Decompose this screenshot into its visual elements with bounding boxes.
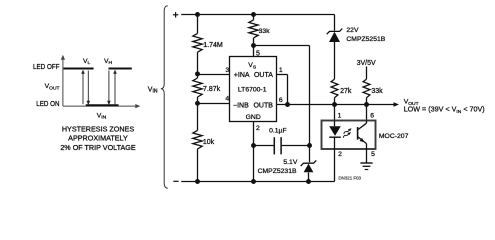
svg-text:0.1µF: 0.1µF [269, 128, 287, 135]
svg-text:5: 5 [371, 151, 375, 158]
svg-text:4: 4 [225, 96, 229, 103]
svg-text:3: 3 [225, 67, 229, 74]
svg-text:CMPZ5251B: CMPZ5251B [346, 36, 385, 43]
svg-text:MOC-207: MOC-207 [379, 133, 409, 140]
svg-text:2% OF TRIP VOLTAGE: 2% OF TRIP VOLTAGE [60, 143, 136, 152]
svg-text:LED ON: LED ON [36, 101, 59, 108]
svg-text:1: 1 [338, 113, 342, 120]
svg-text:22V: 22V [346, 27, 359, 34]
svg-text:OUTA: OUTA [254, 72, 273, 79]
svg-text:5.1V: 5.1V [283, 159, 297, 166]
svg-text:2: 2 [256, 125, 260, 132]
svg-text:VIN: VIN [148, 86, 158, 94]
svg-text:VIN: VIN [97, 112, 107, 120]
svg-text:6: 6 [279, 97, 283, 104]
svg-text:27k: 27k [340, 88, 352, 95]
svg-text:LOW = (39V < VIN < 70V): LOW = (39V < VIN < 70V) [404, 105, 485, 115]
svg-text:CMPZ5231B: CMPZ5231B [258, 168, 297, 175]
svg-text:7.87k: 7.87k [203, 86, 221, 93]
svg-text:DN321 F03: DN321 F03 [339, 175, 362, 180]
svg-text:APPROXIMATELY: APPROXIMATELY [68, 133, 128, 142]
svg-text:−INB: −INB [233, 103, 249, 110]
svg-text:HYSTERESIS ZONES: HYSTERESIS ZONES [62, 125, 134, 134]
svg-text:5: 5 [256, 50, 260, 57]
svg-text:LT6700-1: LT6700-1 [238, 86, 267, 93]
svg-text:VH: VH [104, 58, 113, 66]
svg-text:OUTB: OUTB [253, 103, 273, 110]
svg-text:VOUT: VOUT [45, 83, 60, 91]
svg-text:LED OFF: LED OFF [33, 64, 60, 71]
svg-text:+INA: +INA [234, 72, 250, 79]
svg-text:VS: VS [248, 62, 257, 70]
svg-text:33k: 33k [371, 88, 383, 95]
svg-text:33k: 33k [259, 28, 271, 35]
svg-text:1: 1 [279, 67, 283, 74]
svg-text:6: 6 [370, 113, 374, 120]
svg-text:2: 2 [338, 151, 342, 158]
svg-text:3V/5V: 3V/5V [357, 60, 376, 67]
svg-text:GND: GND [246, 114, 261, 121]
svg-text:VL: VL [83, 58, 91, 66]
svg-text:10k: 10k [203, 139, 215, 146]
svg-text:1.74M: 1.74M [203, 42, 223, 49]
